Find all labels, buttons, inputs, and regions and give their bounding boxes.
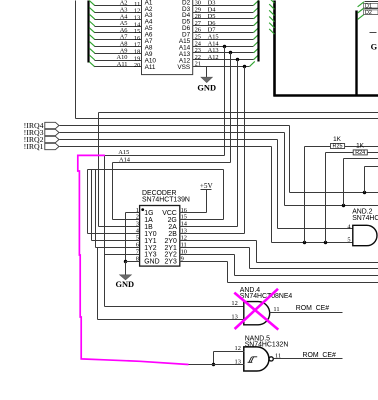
bus: data bus right of U1 (thick) — [257, 1, 259, 62]
wire highlighted net (magenta) from A15 junction to NAND.5 input — [78, 155, 189, 364]
decoder U2 pin 15 (2G) — [168, 214, 188, 224]
wire U1 pin 25 net A15 with bus entry — [193, 34, 259, 41]
wire NAND.5 input 13 from magenta net — [189, 364, 245, 366]
svg-text:8: 8 — [136, 255, 139, 262]
wire U1 pin 30 net D3 with bus entry — [193, 0, 259, 7]
svg-text:11: 11 — [273, 306, 279, 313]
decoder U2 SN74HCT139N body — [140, 190, 190, 266]
decoder 1G tied to GND rail — [124, 213, 133, 264]
svg-text:21: 21 — [195, 61, 201, 68]
decoder U2 pin 5 (1Y1) — [133, 235, 157, 245]
svg-text:GND: GND — [197, 84, 216, 93]
wire U1 pin 22 net A12 with bus entry — [193, 54, 259, 61]
svg-text:2Y3: 2Y3 — [165, 259, 177, 266]
wire U1 pin 28 net D5 with bus entry — [193, 13, 259, 20]
svg-text:R25: R25 — [333, 144, 343, 150]
ground symbol below U1 (VSS pin 21) — [197, 67, 216, 93]
decoder U2 pin 16 (VCC) — [162, 207, 187, 217]
connector !IRQ4 — [24, 121, 59, 130]
decoder U2 pin 8 (GND) — [133, 255, 160, 265]
wire A10 to U1 pin 19 with bus entry — [89, 54, 141, 62]
svg-text:A15: A15 — [118, 149, 129, 156]
and gate AND.2 SN74HCT08 (cropped at right edge) — [347, 209, 378, 246]
wire net X at y=169.5 to decoder 2G (pin 15) — [88, 170, 224, 220]
decoder U2 pin 4 (1Y0) — [133, 228, 157, 238]
nand gate NAND.5 SN74HC132N (schmitt) — [235, 336, 289, 371]
decoder U2 pin 14 (2A) — [168, 221, 187, 231]
resistor R25 1K — [305, 136, 378, 242]
svg-text:A12: A12 — [208, 54, 219, 61]
wire decoder 2Y1 route right to edge — [188, 248, 378, 269]
svg-text:9: 9 — [181, 255, 184, 262]
svg-text:1K: 1K — [356, 143, 365, 150]
wire net A13: drop from U1 to decoder 2A (pin 14) — [188, 60, 238, 227]
bus: address bus left of U1 (thick) — [87, 1, 89, 63]
wire A2 to U1 pin 11 with bus entry — [89, 0, 141, 8]
svg-text:A11: A11 — [117, 61, 128, 68]
decoder U2 pin 7 (1Y3) — [133, 248, 157, 258]
svg-text:D1: D1 — [365, 4, 372, 10]
magenta X cross over AND.4 — [234, 289, 278, 330]
svg-text:VSS: VSS — [177, 64, 190, 71]
wire net A15: drop from U1, left to junction; junction down to 1Y3 and AND.4 pin 12 — [105, 47, 244, 307]
wire A4 to U1 pin 13 with bus entry — [89, 13, 141, 21]
and gate AND.4 SN74HCT08NE4 — [231, 287, 292, 325]
svg-text:12: 12 — [231, 300, 237, 307]
svg-text:GND: GND — [115, 280, 134, 289]
decoder U2 pin 9 (2Y3) — [165, 255, 188, 265]
svg-text:GND: GND — [144, 259, 159, 266]
wire A5 to U1 pin 14 with bus entry — [89, 20, 141, 28]
svg-text:+5V: +5V — [200, 182, 214, 190]
wire branch down to decoder 1Y1 — [92, 170, 133, 241]
wire U1 pin 29 net D4 with bus entry — [193, 6, 259, 13]
svg-text:SN74HCT139N: SN74HCT139N — [142, 197, 190, 204]
wire A7 to U1 pin 16 with bus entry — [89, 34, 141, 42]
svg-text:G: G — [371, 43, 378, 52]
wire !IRQ4 route right then down to exit; link stub at x=364 — [60, 126, 378, 195]
wire U1 pin 23 net A13 with bus entry — [193, 47, 259, 54]
wire net B across page, branch down to decoder 1B — [99, 113, 378, 227]
wire A11 to U1 pin 20 with bus entry — [89, 61, 141, 69]
wire net A14: drop from U1, left, down to decoder 1A — [113, 53, 231, 220]
wire AND.4 output ROM CE# — [270, 305, 343, 313]
wire U1 pin 26 net D7 with bus entry — [193, 27, 259, 34]
bus entries on left edge of top-right block — [269, 0, 274, 34]
svg-text:ROM CE#: ROM CE# — [303, 352, 336, 359]
pin label G (active low bar) inside top-right block — [370, 33, 378, 52]
decoder U2 pin 13 (2B) — [168, 228, 187, 238]
decoder U2 pin 10 (2Y2) — [165, 248, 188, 258]
svg-text:20: 20 — [134, 62, 140, 69]
wire net from top at x=75 turning right across page — [76, 1, 378, 119]
wire branch down from net X to decoder 1Y0 — [88, 170, 133, 234]
svg-text:D2: D2 — [365, 10, 372, 16]
svg-text:1K: 1K — [333, 136, 342, 143]
data stub wires top-right corner with boxed labels D1 D2 — [358, 2, 378, 20]
wire !IRQ2 route to AND.2 pin 4 — [60, 140, 353, 229]
wire A8 to U1 pin 17 with bus entry — [89, 41, 141, 49]
wire A3 to U1 pin 12 with bus entry — [89, 7, 141, 15]
decoder U2 pin 1 (1G) — [133, 207, 154, 217]
connector !IRQ2 — [24, 135, 59, 144]
resistor R24 1K — [326, 143, 378, 243]
inner bus (thick) inside top-right block — [355, 11, 357, 96]
decoder U2 pin 12 (2Y0) — [165, 235, 188, 245]
svg-text:A11: A11 — [145, 64, 156, 71]
wire A6 to U1 pin 15 with bus entry — [89, 27, 141, 35]
svg-text:ROM CE#: ROM CE# — [296, 305, 329, 312]
svg-text:5: 5 — [347, 237, 350, 244]
wire NAND.5 output ROM CE# — [274, 352, 343, 359]
+5V supply to decoder VCC — [188, 182, 214, 213]
wire decoder 2Y0 route right to edge — [188, 241, 378, 263]
connector !IRQ1 — [24, 142, 59, 151]
wire !IRQ1 route to AND.2 pin 5 with pull-up junctions — [60, 147, 353, 245]
svg-text:A14: A14 — [119, 156, 131, 163]
svg-text:13: 13 — [231, 313, 237, 320]
decoder U2 pin 6 (1Y2) — [133, 241, 157, 251]
wire !IRQ3 route right then down to exit; link stub at x=343 — [60, 133, 378, 208]
decoder U2 pin 2 (1A) — [133, 214, 154, 224]
wire U1 pin 27 net D6 with bus entry — [193, 20, 259, 27]
decoder U2 pin 11 (2Y1) — [165, 241, 188, 251]
ground symbol below decoder — [115, 262, 134, 290]
wire net A12: drop from U1 to decoder 2B (pin 13) — [188, 67, 245, 234]
svg-text:!IRQ1: !IRQ1 — [24, 142, 44, 151]
wire decoder 2Y3 route right to edge — [188, 262, 378, 283]
decoder U2 pin 3 (1B) — [133, 221, 154, 231]
connector !IRQ3 — [24, 128, 59, 137]
svg-text:R24: R24 — [355, 150, 365, 156]
wire U1 pin 24 net A14 with bus entry — [193, 40, 259, 48]
svg-text:SN74HCT0: SN74HCT0 — [352, 215, 378, 222]
wire branch down to decoder 1Y2, and down to AND.4 pin 13 — [96, 170, 244, 320]
IC U1 (cropped at top) — [142, 0, 193, 75]
wire U1 pin 21 with bus entry — [193, 61, 255, 69]
wire decoder 2Y2 route right to edge — [188, 255, 378, 276]
wire A9 to U1 pin 18 with bus entry — [89, 47, 141, 55]
wire NAND.5 input 12 tied to input 13 — [212, 352, 245, 367]
connector block top-right (thick outline, cropped) — [274, 1, 378, 97]
